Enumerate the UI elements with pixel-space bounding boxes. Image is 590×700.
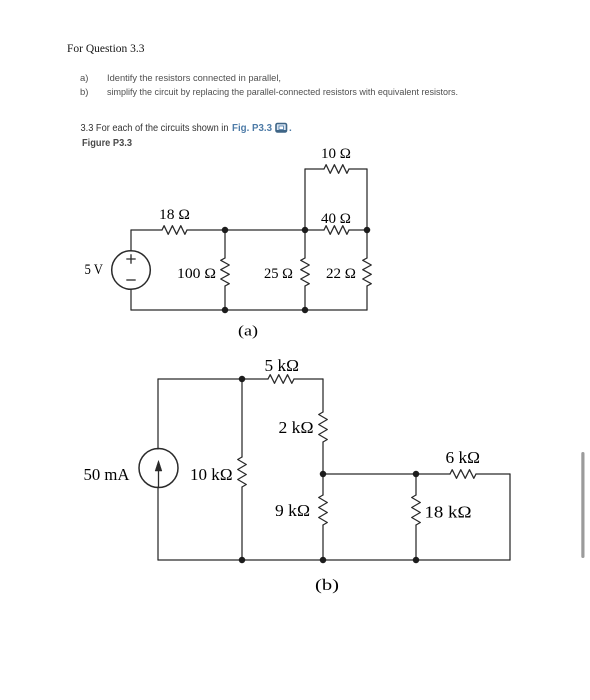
resistor 18 kohm (412, 495, 421, 525)
voltage source minus sign (126, 279, 135, 281)
junction node b5 (320, 557, 327, 564)
current source I1 circle (139, 449, 178, 488)
wire 2 kohm bottom lead (322, 442, 324, 474)
wire 10 kohm bottom lead (241, 487, 243, 560)
svg-text:10 kΩ: 10 kΩ (190, 465, 233, 484)
wire 18 kohm bottom lead (415, 525, 417, 560)
voltage source V1 circle (112, 251, 151, 290)
svg-text:3.3 For each of the circuits s: 3.3 For each of the circuits shown in (81, 123, 229, 134)
wire loop right vertical (a) (366, 169, 368, 230)
svg-text:2 kΩ: 2 kΩ (279, 418, 314, 437)
svg-text:40 Ω: 40 Ω (321, 211, 351, 227)
wire 18 kohm top lead (415, 474, 417, 495)
wire left branch lower (a) (130, 289, 132, 310)
wire right vertical (b) (509, 474, 511, 560)
resistor 100 ohm (221, 258, 230, 286)
svg-text:5 V: 5 V (85, 262, 104, 278)
svg-text:18 Ω: 18 Ω (159, 207, 190, 223)
junction node a1 (222, 227, 229, 234)
svg-text:For Question 3.3: For Question 3.3 (67, 41, 145, 55)
wire 100 ohm to bottom (224, 286, 226, 310)
junction node a3 (364, 227, 371, 234)
svg-text:18 kΩ: 18 kΩ (425, 503, 472, 522)
wire top right (b) (294, 378, 323, 380)
wire middle right (b) (476, 473, 510, 475)
svg-text:50 mA: 50 mA (84, 465, 130, 484)
svg-text:100 Ω: 100 Ω (177, 266, 216, 282)
resistor 22 ohm (363, 258, 372, 286)
junction node a5 (302, 307, 309, 314)
wire loop top left (a) (305, 168, 324, 170)
wire 9 kohm top lead (322, 474, 324, 495)
wire 10 kohm top lead (241, 379, 243, 457)
junction node b2 (320, 471, 327, 478)
svg-text:6 kΩ: 6 kΩ (446, 448, 481, 467)
wire left branch upper (a) (130, 230, 132, 251)
current source arrow (155, 461, 162, 488)
wire loop left vertical (a) (304, 169, 306, 230)
svg-text:Figure P3.3: Figure P3.3 (82, 137, 132, 149)
wire bottom (b) (158, 559, 510, 561)
svg-text:(b): (b) (315, 577, 339, 594)
scrollbar thumb (581, 452, 584, 558)
resistor 10 kohm (238, 457, 247, 487)
svg-text:10 Ω: 10 Ω (321, 146, 351, 162)
resistor 25 ohm (301, 258, 310, 286)
wire 22 ohm to bottom (366, 286, 368, 310)
junction node b3 (413, 471, 420, 478)
wire top middle (a) (187, 229, 324, 231)
resistor 100 ohm leads (224, 230, 226, 258)
svg-text:.: . (289, 123, 292, 134)
wire top left (b) (158, 378, 268, 380)
resistor 10 ohm (324, 165, 349, 174)
svg-text:b): b) (80, 87, 88, 98)
wire top left (a) (131, 229, 162, 231)
wire middle horizontal (b) (323, 473, 450, 475)
voltage source plus sign (126, 254, 135, 280)
svg-text:25 Ω: 25 Ω (264, 266, 293, 282)
wire top right (a) (349, 229, 367, 231)
junction node a2 (302, 227, 309, 234)
svg-text:Fig. P3.3: Fig. P3.3 (232, 123, 272, 134)
resistor 6 kohm (450, 470, 476, 479)
svg-text:9 kΩ: 9 kΩ (275, 501, 310, 520)
wire 22 ohm top lead (366, 230, 368, 258)
svg-text:a): a) (80, 73, 88, 84)
wire loop top right (a) (349, 168, 367, 170)
wire 25 ohm to bottom (304, 286, 306, 310)
resistor 5 kohm (268, 375, 294, 384)
junction node b4 (239, 557, 246, 564)
resistor 2 kohm (319, 412, 328, 442)
resistor 40 ohm (324, 226, 349, 235)
wire 9 kohm bottom lead (322, 525, 324, 560)
resistor 9 kohm (319, 495, 328, 525)
junction node b1 (239, 376, 246, 383)
svg-text:(a): (a) (238, 324, 258, 340)
junction node a4 (222, 307, 229, 314)
wire 25 ohm top lead (304, 230, 306, 258)
svg-text:simplify the circuit by replac: simplify the circuit by replacing the pa… (107, 87, 458, 98)
wire bottom (a) (131, 309, 367, 311)
junction node b6 (413, 557, 420, 564)
wire 2 kohm top lead (322, 379, 324, 412)
wire left branch upper (b) (157, 379, 159, 449)
svg-text:Identify the resistors connect: Identify the resistors connected in para… (107, 73, 281, 84)
wire left branch lower (b) (157, 487, 159, 560)
resistor 18 ohm (162, 226, 187, 235)
popup icon (276, 124, 287, 133)
svg-text:5 kΩ: 5 kΩ (265, 356, 300, 375)
svg-text:22 Ω: 22 Ω (326, 266, 356, 282)
